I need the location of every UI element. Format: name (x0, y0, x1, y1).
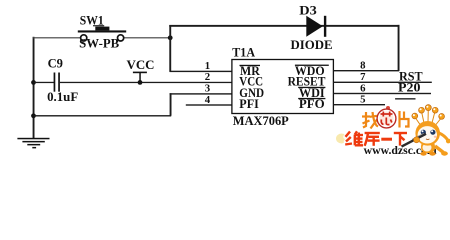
svg-text:SW-PB: SW-PB (79, 36, 119, 50)
svg-text:4: 4 (205, 94, 211, 106)
wire C9 right segment to pin 2 (60, 82, 232, 83)
wire junction vertical (top wire down to pin 1) (169, 25, 171, 72)
diode D3 (306, 16, 326, 37)
IC T1A MAX706P box (232, 60, 334, 114)
power VCC symbol (133, 72, 147, 83)
svg-text:PFI: PFI (239, 97, 259, 111)
svg-text:MAX706P: MAX706P (233, 114, 289, 128)
crown balls (412, 105, 445, 120)
node junction VCC / wire (138, 80, 143, 85)
svg-text:C9: C9 (48, 57, 63, 71)
watermark mascot (402, 105, 450, 156)
node junction ground wire / left rail (31, 113, 36, 118)
svg-text:VCC: VCC (127, 58, 155, 72)
wire pin 1 horizontal (170, 71, 233, 72)
label P20 underline (395, 98, 415, 99)
svg-text:DIODE: DIODE (291, 38, 333, 52)
wire left rail vertical (33, 37, 35, 138)
switch SW1 (SW-PB) (78, 27, 126, 41)
crown stalks (415, 109, 441, 125)
wire switch right segment (124, 37, 171, 38)
svg-text:D3: D3 (299, 4, 317, 18)
svg-text:8: 8 (360, 60, 366, 72)
pen (402, 134, 427, 147)
svg-text:5: 5 (360, 94, 365, 106)
svg-text:3: 3 (205, 83, 211, 95)
wire C9 left segment (34, 82, 55, 83)
capacitor C9 plates (54, 73, 60, 92)
body (421, 141, 435, 153)
node junction at switch/top wire (168, 35, 173, 40)
watermark magnifier circle with 芯 (377, 106, 396, 128)
watermark logo dzsc (336, 105, 450, 157)
watermark char 找 (362, 112, 378, 129)
eyes (421, 130, 426, 135)
node junction C9 wire / left rail (31, 80, 36, 85)
hand on pen (414, 137, 420, 143)
wire pin 8 horizontal (333, 70, 399, 71)
svg-text:7: 7 (360, 71, 366, 83)
wire pin 4 stub (186, 104, 232, 105)
wire right vertical down to pin 8 (398, 25, 400, 71)
label SW1 underline (93, 25, 104, 26)
svg-text:T1A: T1A (232, 45, 255, 59)
watermark text 维库一下 (drawn strokes) (345, 131, 407, 146)
svg-text:1: 1 (205, 60, 210, 72)
right arm (438, 133, 448, 141)
svg-text:2: 2 (205, 71, 210, 83)
watermark glow (336, 134, 347, 144)
svg-text:P20: P20 (398, 80, 421, 94)
head (415, 121, 440, 146)
wire switch left segment (33, 37, 81, 38)
wire pin 7 horizontal (RST) (333, 82, 431, 83)
wire pin 6 horizontal (P20) (333, 93, 431, 94)
wire top horizontal to diode and right (169, 25, 399, 27)
ground symbol (17, 138, 49, 149)
wire ground step vertical (170, 93, 172, 116)
watermark char 片 (400, 111, 409, 128)
wire pin 3 horizontal (170, 93, 233, 94)
wire pin 5 stub (333, 104, 385, 105)
svg-text:0.1uF: 0.1uF (47, 90, 78, 104)
wire ground horizontal (34, 115, 172, 116)
